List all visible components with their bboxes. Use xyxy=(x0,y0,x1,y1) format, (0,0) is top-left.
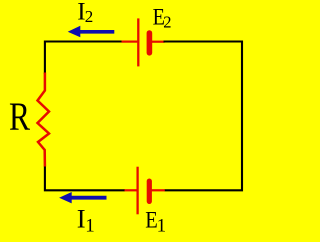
wire: red left lead of battery E1 xyxy=(124,189,137,191)
current arrow I1 (blue, pointing left along bottom wire) xyxy=(59,192,106,203)
wire: top-left segment from resistor R top up and across to battery E2 xyxy=(45,42,123,75)
battery E1 short thick plate (negative terminal) xyxy=(147,179,152,205)
current arrow I2 (blue, pointing left along top wire) xyxy=(68,26,115,38)
label E2 (EMF source 2) xyxy=(153,4,172,31)
svg-text:1: 1 xyxy=(157,216,167,237)
wire: bottom-left segment from E1 across and up to resistor R bottom xyxy=(45,166,125,190)
label I1 (current through bottom branch) xyxy=(77,204,95,237)
wire: red right lead of battery E1 xyxy=(152,189,165,191)
resistor R (red zigzag element with red leads) xyxy=(38,73,50,167)
label E1 (EMF source 1) xyxy=(145,207,166,236)
svg-text:1: 1 xyxy=(85,215,95,236)
battery E1 long thin plate (positive terminal) xyxy=(136,167,138,215)
battery E2 long thin plate (positive terminal) xyxy=(137,18,139,66)
label I2 (current through top branch) xyxy=(77,0,93,26)
svg-text:2: 2 xyxy=(163,12,171,31)
svg-text:R: R xyxy=(9,94,30,139)
wire: top-right, right side and bottom-right segment from E2 to battery E1 xyxy=(164,42,243,191)
wire: red right lead of battery E2 xyxy=(152,41,165,43)
battery E2 short thick plate (negative terminal) xyxy=(147,30,153,55)
svg-text:2: 2 xyxy=(85,7,94,26)
wire: red left lead of battery E2 xyxy=(122,40,138,42)
